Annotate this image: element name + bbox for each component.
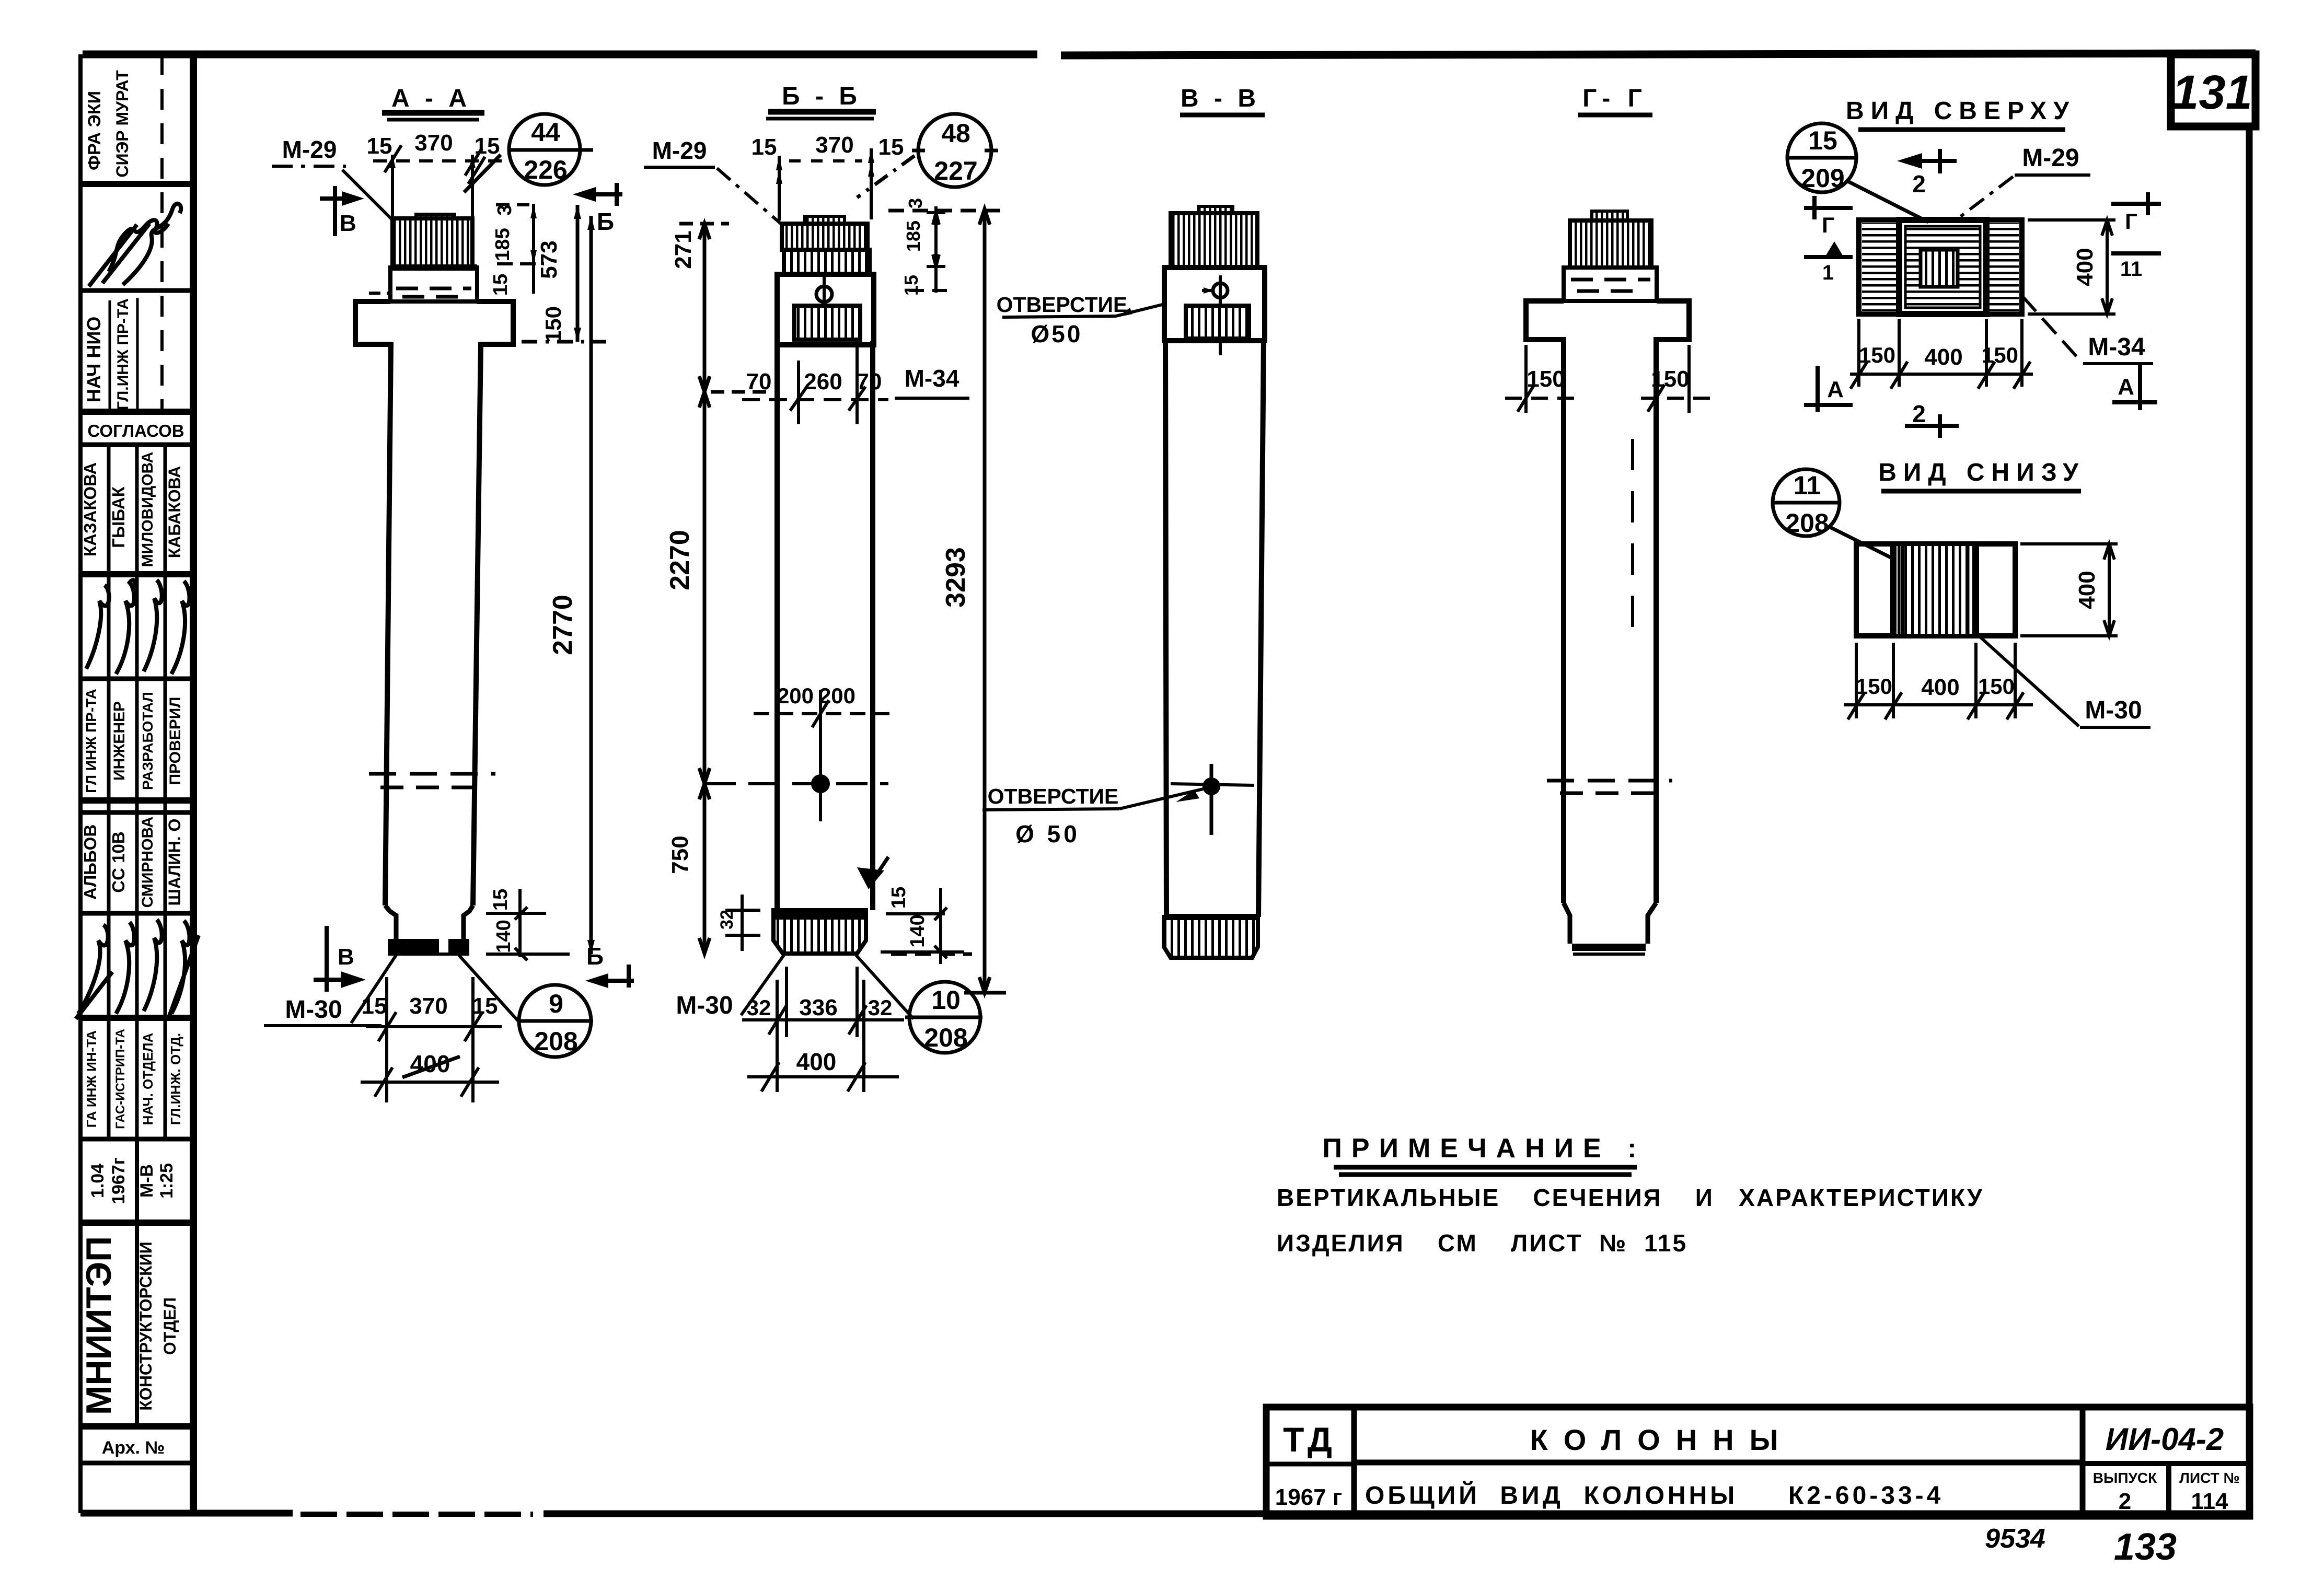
leader M-29 xyxy=(342,170,392,219)
stamp signatures row (4 cols) xyxy=(86,580,190,674)
verticals xyxy=(160,54,164,412)
leaders to M-30 and circle xyxy=(741,955,784,1015)
svg-text:370: 370 xyxy=(815,132,853,158)
section cut arrow on shaft xyxy=(857,867,884,889)
leader to M-30 xyxy=(351,955,396,1023)
svg-text:2: 2 xyxy=(1912,400,1926,427)
hatched window xyxy=(794,306,860,340)
hidden line dashes xyxy=(1631,439,1634,648)
svg-text:3: 3 xyxy=(905,198,926,208)
svg-text:150: 150 xyxy=(1651,366,1689,392)
svg-text:ИНЖЕНЕР: ИНЖЕНЕР xyxy=(111,701,128,781)
svg-text:336: 336 xyxy=(799,995,837,1020)
svg-text:СМИРНОВА: СМИРНОВА xyxy=(139,817,156,908)
svg-text:РАЗРАБОТАЛ: РАЗРАБОТАЛ xyxy=(140,692,156,790)
svg-text:2770: 2770 xyxy=(548,595,578,655)
svg-text:15: 15 xyxy=(1808,126,1837,155)
svg-text:400: 400 xyxy=(796,1048,837,1075)
svg-text:А: А xyxy=(1827,377,1844,402)
svg-text:10: 10 xyxy=(931,985,961,1015)
leader M-29 xyxy=(717,168,781,224)
svg-text:133: 133 xyxy=(2114,1526,2177,1568)
top section xyxy=(777,274,874,345)
svg-text:ВИД СВЕРХУ: ВИД СВЕРХУ xyxy=(1846,97,2076,125)
corbel flange xyxy=(355,301,513,905)
column cap hatched xyxy=(1198,206,1233,214)
section mark 2 bottom xyxy=(1905,424,1959,428)
svg-text:9534: 9534 xyxy=(1985,1524,2045,1554)
hole marker top xyxy=(1213,283,1228,298)
svg-text:НАЧ НИО: НАЧ НИО xyxy=(83,317,105,402)
section mark 2 top xyxy=(1906,159,1957,163)
svg-text:НАЧ. ОТДЕЛА: НАЧ. ОТДЕЛА xyxy=(140,1032,156,1125)
top section xyxy=(1164,268,1265,341)
svg-text:15: 15 xyxy=(490,274,512,296)
svg-text:370: 370 xyxy=(414,130,453,156)
section mark B top-left xyxy=(320,186,358,236)
hole marker top xyxy=(816,286,832,302)
svg-text:150: 150 xyxy=(541,306,565,343)
bottom band xyxy=(773,910,866,954)
svg-text:Арх. №: Арх. № xyxy=(102,1438,165,1458)
svg-text:ГЫБАК: ГЫБАК xyxy=(109,486,128,548)
svg-text:КАБАКОВА: КАБАКОВА xyxy=(165,466,184,559)
svg-text:9: 9 xyxy=(549,989,563,1018)
svg-text:750: 750 xyxy=(667,835,693,874)
column cap hatched xyxy=(1592,211,1627,220)
svg-text:ВИД СНИЗУ: ВИД СНИЗУ xyxy=(1878,459,2085,486)
svg-text:11: 11 xyxy=(2120,258,2142,281)
left end zone hatched xyxy=(1862,223,1897,311)
svg-text:ЛИСТ №: ЛИСТ № xyxy=(2179,1470,2239,1486)
svg-text:ГЛ ИНЖ ПР-ТА: ГЛ ИНЖ ПР-ТА xyxy=(83,689,99,793)
svg-text:131: 131 xyxy=(2172,66,2252,119)
svg-text:227: 227 xyxy=(934,156,977,185)
svg-text:2: 2 xyxy=(2119,1489,2131,1514)
svg-text:400: 400 xyxy=(1924,344,1962,370)
svg-text:15: 15 xyxy=(900,275,922,296)
right dim chain 3/185/15 xyxy=(909,206,954,293)
svg-text:Б - Б: Б - Б xyxy=(782,83,861,110)
svg-text:208: 208 xyxy=(924,1023,967,1052)
svg-text:226: 226 xyxy=(524,155,567,184)
svg-text:Г- Г: Г- Г xyxy=(1582,85,1647,112)
right dim 3293 xyxy=(888,209,1006,993)
svg-text:ПРОВЕРИЛ: ПРОВЕРИЛ xyxy=(167,697,184,785)
svg-text:М-34: М-34 xyxy=(905,365,959,392)
bottom border xyxy=(80,1510,293,1517)
section marks Г right xyxy=(2111,192,2161,253)
detail circle 11/208 xyxy=(1773,469,1892,558)
svg-text:ВЕРТИКАЛЬНЫЕ СЕЧЕНИЯ И: ВЕРТИКАЛЬНЫЕ СЕЧЕНИЯ И ХАРАКТЕРИСТИКУ xyxy=(1277,1184,1984,1211)
svg-text:ВЫПУСК: ВЫПУСК xyxy=(2093,1470,2157,1486)
svg-text:208: 208 xyxy=(1785,508,1829,538)
svg-text:М-30: М-30 xyxy=(285,996,342,1024)
section mark Б bottom-right xyxy=(593,965,634,988)
svg-text:АЛЬБОВ: АЛЬБОВ xyxy=(80,824,100,900)
svg-text:КОНСТРУКТОРСКИЙ: КОНСТРУКТОРСКИЙ xyxy=(136,1241,155,1410)
hole marker lower xyxy=(1204,779,1219,794)
svg-text:1: 1 xyxy=(1822,261,1834,284)
svg-text:А: А xyxy=(2118,374,2134,400)
right end zone hatched xyxy=(1989,223,2019,311)
detail circle 44/226 xyxy=(464,114,593,192)
svg-text:ИИ-04-2: ИИ-04-2 xyxy=(2106,1422,2224,1457)
svg-text:209: 209 xyxy=(1801,164,1844,193)
section marks Г left xyxy=(1804,196,1853,257)
svg-text:15: 15 xyxy=(472,993,498,1019)
svg-text:ШАЛИН. О: ШАЛИН. О xyxy=(165,819,184,906)
svg-text:Ø 50: Ø 50 xyxy=(1015,820,1080,847)
svg-text:32: 32 xyxy=(868,995,893,1020)
svg-text:3: 3 xyxy=(494,204,516,215)
right border xyxy=(2246,124,2253,1515)
shaft break dashes xyxy=(1547,779,1672,783)
svg-text:В: В xyxy=(340,211,356,236)
svg-text:200: 200 xyxy=(819,683,855,708)
svg-text:ГАС-ИСТРИП-ТА: ГАС-ИСТРИП-ТА xyxy=(113,1029,128,1129)
svg-text:ОТДЕЛ: ОТДЕЛ xyxy=(160,1297,179,1355)
svg-text:ГА ИНЖ ИН-ТА: ГА ИНЖ ИН-ТА xyxy=(84,1030,99,1128)
svg-text:32: 32 xyxy=(747,995,771,1020)
svg-text:140: 140 xyxy=(493,920,515,953)
svg-text:В - В: В - В xyxy=(1181,85,1260,112)
svg-text:1.04: 1.04 xyxy=(88,1164,108,1198)
svg-text:М-29: М-29 xyxy=(2022,144,2079,172)
svg-text:400: 400 xyxy=(2072,248,2098,286)
center window xyxy=(1921,250,1958,287)
svg-text:Ø50: Ø50 xyxy=(1031,320,1083,347)
svg-text:КАЗАКОВА: КАЗАКОВА xyxy=(80,462,100,556)
bottom band xyxy=(1164,917,1258,958)
column cap hatched two bands xyxy=(805,216,845,224)
svg-text:32: 32 xyxy=(717,910,737,930)
svg-text:МНИИТЭП: МНИИТЭП xyxy=(79,1236,119,1415)
right dim chain 3/185/15 xyxy=(496,204,544,294)
detail circle 15/209 xyxy=(1787,123,1928,222)
svg-text:ФРА ЭКИ: ФРА ЭКИ xyxy=(85,91,105,170)
svg-text:Г: Г xyxy=(2125,209,2137,234)
svg-text:ПРИМЕЧАНИЕ :: ПРИМЕЧАНИЕ : xyxy=(1323,1133,1646,1164)
svg-text:15: 15 xyxy=(751,134,777,160)
svg-text:185: 185 xyxy=(492,228,514,261)
bottom black band xyxy=(388,939,439,954)
svg-text:ОБЩИЙ ВИД КОЛОННЫ К2-60-: ОБЩИЙ ВИД КОЛОННЫ К2-60-33-4 xyxy=(1365,1481,1944,1509)
svg-text:СИЭР МУРАТ: СИЭР МУРАТ xyxy=(113,70,132,178)
bottom xyxy=(1564,903,1656,944)
svg-text:260: 260 xyxy=(804,369,842,394)
svg-text:СОГЛАСОВ: СОГЛАСОВ xyxy=(87,421,184,440)
svg-text:Г: Г xyxy=(1822,213,1834,237)
top border xyxy=(83,51,1037,59)
svg-text:ГЛ.ИНЖ ПР-ТА: ГЛ.ИНЖ ПР-ТА xyxy=(114,298,132,410)
svg-text:573: 573 xyxy=(536,240,562,278)
section mark Б top-right xyxy=(580,183,622,206)
svg-text:ОТВЕРСТИЕ: ОТВЕРСТИЕ xyxy=(988,784,1119,808)
page number box xyxy=(2171,54,2256,126)
svg-text:М-30: М-30 xyxy=(676,992,733,1019)
svg-text:ОТВЕРСТИЕ: ОТВЕРСТИЕ xyxy=(997,293,1128,317)
collar xyxy=(1564,268,1657,301)
column cap hatched xyxy=(416,214,455,219)
svg-text:М-29: М-29 xyxy=(282,136,337,163)
svg-text:11: 11 xyxy=(1794,471,1821,500)
svg-text:70: 70 xyxy=(857,369,882,394)
svg-text:15: 15 xyxy=(878,134,904,160)
svg-text:1967 г: 1967 г xyxy=(1275,1484,1342,1510)
dim 400 right xyxy=(2028,220,2115,314)
svg-text:140: 140 xyxy=(907,914,929,947)
svg-text:МИЛОВИДОВА: МИЛОВИДОВА xyxy=(139,452,156,567)
svg-text:М-30: М-30 xyxy=(2085,696,2142,724)
stamp signatures row 2 xyxy=(76,920,199,1019)
shaft break dashes xyxy=(369,772,495,776)
long dim 2770 xyxy=(589,216,593,954)
right dim chain 573/150 xyxy=(522,205,606,342)
svg-text:М-В: М-В xyxy=(137,1164,157,1198)
section mark B bottom-left xyxy=(314,926,356,992)
svg-text:15: 15 xyxy=(367,133,392,159)
dim 400 right xyxy=(2020,544,2118,636)
svg-text:400: 400 xyxy=(1921,675,1959,700)
collar xyxy=(390,268,477,301)
bottom chamfer and base xyxy=(385,905,473,940)
svg-text:185: 185 xyxy=(903,220,924,252)
stamp row2 signature scribbles xyxy=(89,204,181,286)
svg-text:Б: Б xyxy=(586,943,604,970)
svg-text:3293: 3293 xyxy=(941,547,971,608)
svg-text:208: 208 xyxy=(534,1027,577,1056)
middle hatched zone xyxy=(1893,546,1976,634)
svg-text:ИЗДЕЛИЯ СМ ЛИСТ № 115: ИЗДЕЛИЯ СМ ЛИСТ № 115 xyxy=(1277,1229,1687,1257)
svg-text:1:25: 1:25 xyxy=(157,1163,177,1199)
corbel flange xyxy=(1526,301,1689,903)
svg-text:В: В xyxy=(338,944,354,970)
svg-text:400: 400 xyxy=(2074,571,2100,609)
svg-text:44: 44 xyxy=(531,118,560,147)
shaft xyxy=(1165,341,1264,917)
column section square xyxy=(1899,220,1986,314)
svg-text:114: 114 xyxy=(2191,1489,2229,1514)
shaft xyxy=(777,341,873,910)
detail circle 10/208 xyxy=(905,982,982,1053)
svg-text:А - А: А - А xyxy=(391,85,471,112)
svg-text:М-29: М-29 xyxy=(652,137,707,164)
plan rectangle xyxy=(1859,220,2022,314)
svg-text:Б: Б xyxy=(597,208,614,235)
svg-text:1967г: 1967г xyxy=(109,1157,129,1204)
svg-text:15: 15 xyxy=(490,889,512,911)
hole marker middle xyxy=(813,776,828,792)
section marks A bottom xyxy=(1804,366,1853,412)
title block frame xyxy=(1266,1407,2250,1516)
svg-text:15: 15 xyxy=(888,887,910,909)
left dim chain 271/2270/750 xyxy=(679,224,768,954)
detail circle 9/208 xyxy=(517,985,593,1057)
svg-text:М-34: М-34 xyxy=(2088,333,2145,361)
svg-text:ТД: ТД xyxy=(1283,1420,1336,1459)
svg-text:2270: 2270 xyxy=(665,530,695,590)
detail circle 48/227 xyxy=(857,114,998,198)
hatched window xyxy=(1186,306,1249,339)
svg-text:200: 200 xyxy=(777,683,814,708)
svg-text:2: 2 xyxy=(1912,170,1926,198)
row lines xyxy=(80,181,193,187)
plan rectangle xyxy=(1856,544,2015,636)
svg-text:ГЛ.ИНЖ. ОТД.: ГЛ.ИНЖ. ОТД. xyxy=(168,1033,183,1125)
svg-text:370: 370 xyxy=(409,993,447,1019)
svg-text:48: 48 xyxy=(941,119,970,148)
svg-text:15: 15 xyxy=(362,993,387,1019)
svg-text:СС 10В: СС 10В xyxy=(109,831,128,892)
svg-text:271: 271 xyxy=(670,230,696,269)
svg-text:КОЛОННЫ: КОЛОННЫ xyxy=(1530,1423,1794,1456)
